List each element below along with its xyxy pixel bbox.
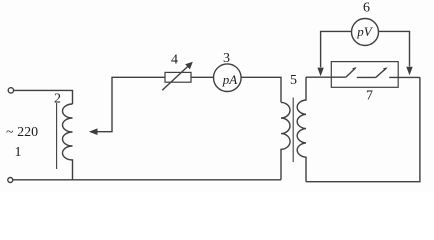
svg-text:4: 4 [171,53,178,68]
svg-text:6: 6 [363,1,370,16]
svg-text:pA: pA [222,72,238,87]
svg-text:2: 2 [54,92,61,107]
svg-text:pV: pV [356,24,374,39]
svg-text:~ 220: ~ 220 [6,125,38,140]
svg-text:3: 3 [223,51,230,66]
svg-text:7: 7 [366,89,373,104]
svg-text:1: 1 [15,145,22,160]
svg-text:5: 5 [290,73,297,88]
